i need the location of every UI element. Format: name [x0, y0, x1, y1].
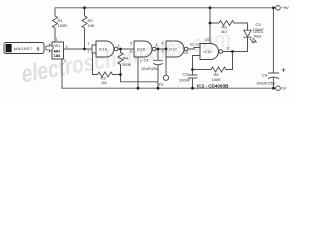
svg-text:100K: 100K — [122, 62, 132, 67]
svg-text:183: 183 — [54, 53, 61, 58]
svg-text:11: 11 — [226, 47, 230, 51]
wire R3R4 node to ground jog — [121, 75, 159, 82]
NAND gate IC1A — [96, 41, 114, 57]
wire hall pin3 to node A — [64, 48, 93, 50]
junction C4 top rail — [272, 6, 275, 9]
svg-text:1: 1 — [88, 42, 90, 46]
svg-text:HS1: HS1 — [53, 44, 60, 48]
svg-text:0V: 0V — [282, 85, 287, 90]
magnet box — [4, 43, 44, 54]
junction node 3 — [119, 48, 122, 51]
svg-text:MAGNET: MAGNET — [14, 46, 33, 51]
magnet N pole — [6, 44, 12, 52]
junction R5 node 11 — [231, 50, 234, 53]
svg-text:IC1B: IC1B — [137, 48, 146, 52]
svg-text:IC1D: IC1D — [204, 50, 213, 54]
wire top +9V rail — [55, 7, 276, 9]
wire IC1D pin13 input — [193, 56, 201, 70]
IC1A input tie bar — [92, 45, 96, 53]
wire bottom 0V rail — [62, 87, 276, 89]
svg-text:13: 13 — [184, 51, 188, 55]
svg-text:12: 12 — [196, 43, 200, 47]
junction C1 ground rail — [157, 87, 160, 90]
arrow magnet to sensor — [46, 44, 54, 52]
NAND gate IC1B — [134, 41, 152, 57]
svg-text:7: 7 — [140, 60, 142, 64]
junction pin7 ground rail — [137, 87, 140, 90]
capacitor C2 — [188, 70, 197, 89]
svg-text:1: 1 — [56, 38, 58, 42]
svg-text:C4: C4 — [262, 73, 268, 78]
svg-text:N: N — [7, 47, 11, 53]
svg-text:14: 14 — [205, 38, 209, 42]
wire IC1B output to IC1C — [156, 48, 166, 50]
svg-text:4k7: 4k7 — [221, 29, 228, 34]
plus sign C4 — [282, 68, 285, 71]
svg-text:100K: 100K — [212, 77, 222, 82]
resistor R6 — [210, 21, 248, 31]
svg-text:5: 5 — [130, 42, 132, 46]
svg-text:1M: 1M — [101, 80, 107, 85]
svg-text:TP1: TP1 — [157, 82, 165, 87]
wire hall pin2 to ground — [61, 59, 63, 88]
NAND gate IC1D — [200, 44, 219, 60]
resistor R2 — [82, 8, 87, 49]
svg-text:10uF/25V: 10uF/25V — [141, 66, 159, 71]
svg-text:2: 2 — [64, 59, 66, 63]
NAND gate IC1C — [166, 41, 184, 57]
capacitor C1 — [154, 49, 163, 88]
svg-text:100uF/25V: 100uF/25V — [256, 81, 276, 86]
resistor R4 — [118, 49, 123, 75]
svg-text:IC1A: IC1A — [99, 48, 108, 52]
wire IC1D pin14 supply — [209, 8, 211, 44]
wire IC1D output pin11 — [223, 51, 248, 53]
svg-text:C1: C1 — [144, 58, 150, 63]
junction TP1 node 4 — [165, 48, 168, 51]
junction node A hall output — [83, 48, 86, 51]
junction C1 node 4 — [157, 48, 160, 51]
LED LED1 — [244, 30, 251, 51]
resistor R1 — [53, 8, 58, 42]
svg-text:6: 6 — [130, 50, 132, 54]
svg-text:10: 10 — [190, 43, 194, 47]
svg-text:+9V: +9V — [282, 5, 290, 10]
watermark electroschematics.com — [19, 24, 233, 88]
terminal 0V — [276, 86, 281, 91]
svg-text:9: 9 — [162, 50, 164, 54]
hall sensor HS1 box — [52, 42, 64, 59]
svg-text:S: S — [37, 47, 40, 52]
resistor R5 — [193, 52, 233, 73]
junction C2 ground rail — [191, 87, 194, 90]
svg-text:100nF: 100nF — [253, 27, 265, 32]
terminal +9V — [276, 6, 281, 11]
svg-text:R4: R4 — [123, 56, 129, 61]
svg-text:8: 8 — [162, 42, 164, 46]
svg-text:4: 4 — [156, 43, 158, 47]
junction dots — [83, 6, 275, 89]
junction R6 supply — [209, 22, 212, 25]
svg-text:10K: 10K — [88, 23, 95, 28]
junction R2 top rail — [83, 6, 86, 9]
svg-text:3: 3 — [118, 44, 120, 48]
svg-text:C2: C2 — [183, 72, 189, 77]
capacitor C4 — [268, 8, 279, 88]
svg-text:3: 3 — [66, 45, 68, 49]
junction pin14 top rail — [209, 6, 212, 9]
wire IC1B pin7 ground — [137, 57, 139, 88]
junction C4 ground rail — [272, 87, 275, 90]
svg-text:IC1C: IC1C — [169, 48, 178, 52]
svg-text:100nF: 100nF — [179, 78, 191, 83]
resistor R3 — [93, 53, 121, 77]
svg-text:2: 2 — [88, 50, 90, 54]
svg-text:100R: 100R — [58, 23, 68, 28]
test point TP1 — [165, 49, 167, 75]
wire IC1C output to IC1D pin12 — [188, 48, 200, 50]
svg-text:IC2 - CD4093B: IC2 - CD4093B — [197, 84, 229, 89]
wire IC1A output node 3 — [118, 48, 134, 50]
svg-text:Red: Red — [254, 33, 261, 38]
junction node 13 — [191, 68, 194, 71]
junction R3 R4 — [119, 73, 122, 76]
